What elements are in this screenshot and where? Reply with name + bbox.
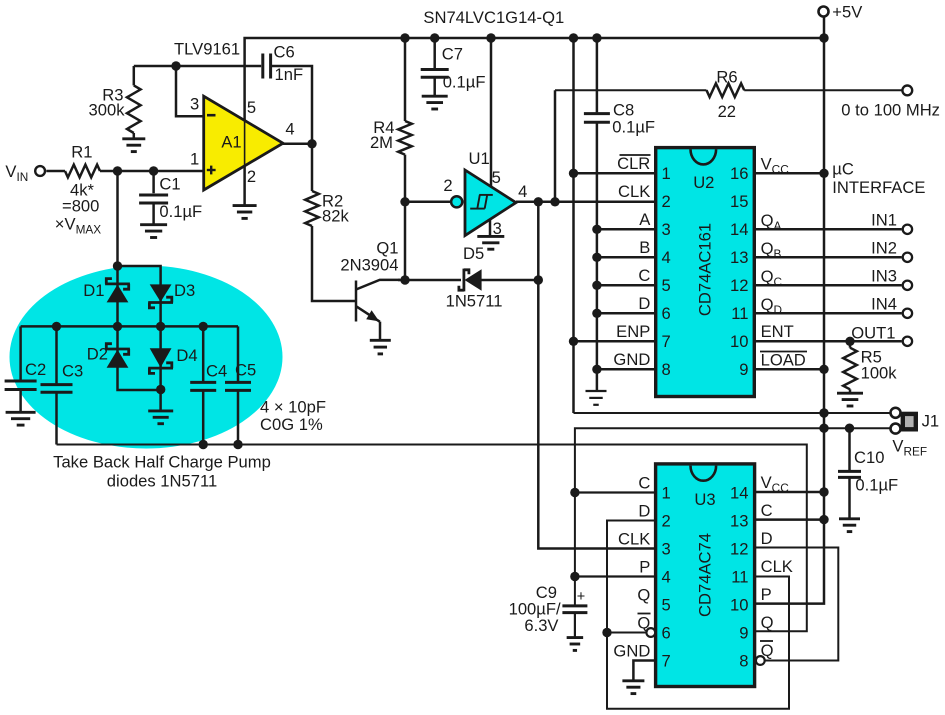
svg-text:C0G 1%: C0G 1% — [260, 415, 323, 434]
svg-text:5: 5 — [492, 168, 501, 187]
svg-text:1: 1 — [662, 483, 671, 502]
svg-text:A1: A1 — [221, 133, 241, 151]
svg-text:+5V: +5V — [832, 3, 862, 22]
svg-text:Take Back Half Charge Pump: Take Back Half Charge Pump — [53, 453, 271, 472]
svg-text:9: 9 — [739, 623, 748, 642]
svg-text:IN2: IN2 — [871, 239, 897, 258]
svg-text:0.1µF: 0.1µF — [443, 73, 486, 92]
svg-text:CLK: CLK — [618, 530, 650, 549]
svg-text:D: D — [761, 529, 773, 548]
svg-text:0.1µF: 0.1µF — [159, 202, 202, 221]
svg-text:82k: 82k — [322, 207, 349, 226]
svg-text:CD74AC74: CD74AC74 — [696, 533, 715, 617]
svg-text:5: 5 — [662, 595, 671, 614]
svg-text:4: 4 — [518, 182, 527, 201]
svg-text:4: 4 — [662, 248, 671, 267]
svg-text:Q: Q — [761, 641, 774, 660]
svg-text:0.1µF: 0.1µF — [612, 118, 655, 137]
svg-text:11: 11 — [731, 304, 748, 323]
svg-text:D3: D3 — [174, 281, 195, 300]
svg-text:6: 6 — [662, 623, 671, 642]
svg-text:7: 7 — [662, 651, 671, 670]
svg-text:GND: GND — [613, 642, 650, 661]
svg-text:5: 5 — [662, 276, 671, 295]
svg-text:D5: D5 — [463, 244, 484, 263]
svg-text:LOAD: LOAD — [761, 351, 806, 370]
svg-text:ENP: ENP — [616, 322, 650, 341]
svg-text:2: 2 — [443, 176, 452, 195]
svg-text:2M: 2M — [370, 133, 393, 152]
svg-text:300k: 300k — [89, 101, 126, 120]
svg-text:U2: U2 — [693, 173, 714, 192]
svg-text:IN4: IN4 — [871, 295, 897, 314]
svg-text:12: 12 — [730, 276, 748, 295]
svg-text:CLK: CLK — [761, 557, 793, 576]
svg-text:14: 14 — [730, 220, 748, 239]
svg-text:6: 6 — [662, 304, 671, 323]
svg-text:IN3: IN3 — [871, 267, 897, 286]
svg-text:TLV9161: TLV9161 — [174, 40, 240, 59]
svg-text:3: 3 — [662, 539, 671, 558]
svg-text:2: 2 — [247, 167, 256, 186]
svg-text:IN1: IN1 — [871, 211, 897, 230]
svg-text:10: 10 — [730, 332, 748, 351]
svg-text:2: 2 — [662, 192, 671, 211]
svg-text:4: 4 — [662, 567, 671, 586]
svg-text:C: C — [761, 501, 773, 520]
svg-text:C3: C3 — [62, 362, 83, 381]
svg-text:B: B — [639, 238, 650, 257]
svg-text:CD74AC161: CD74AC161 — [696, 223, 715, 316]
svg-text:16: 16 — [730, 164, 748, 183]
svg-text:C5: C5 — [235, 361, 256, 380]
svg-text:C6: C6 — [274, 43, 295, 62]
svg-text:C4: C4 — [206, 362, 227, 381]
svg-text:D1: D1 — [83, 281, 104, 300]
svg-text:µC: µC — [832, 160, 854, 179]
svg-text:12: 12 — [730, 539, 748, 558]
svg-text:10: 10 — [730, 595, 748, 614]
svg-text:CLR: CLR — [617, 154, 650, 173]
svg-text:Q: Q — [761, 613, 774, 632]
svg-text:P: P — [639, 558, 650, 577]
svg-text:diodes 1N5711: diodes 1N5711 — [107, 472, 217, 491]
svg-text:ENT: ENT — [761, 322, 794, 341]
svg-text:Q: Q — [637, 614, 650, 633]
svg-text:14: 14 — [730, 483, 748, 502]
svg-text:D4: D4 — [176, 346, 197, 365]
svg-text:INTERFACE: INTERFACE — [832, 178, 925, 197]
svg-text:A: A — [639, 210, 651, 229]
svg-text:8: 8 — [739, 651, 748, 670]
svg-text:7: 7 — [662, 332, 671, 351]
svg-text:C10: C10 — [854, 448, 884, 467]
svg-text:3: 3 — [190, 95, 199, 114]
svg-text:9: 9 — [739, 360, 748, 379]
svg-text:5: 5 — [247, 98, 256, 117]
svg-text:+: + — [577, 589, 585, 605]
svg-text:OUT1: OUT1 — [851, 324, 895, 343]
svg-text:C2: C2 — [25, 360, 46, 379]
svg-text:1: 1 — [662, 164, 671, 183]
svg-text:C: C — [638, 266, 650, 285]
svg-text:R1: R1 — [71, 143, 92, 162]
svg-text:U3: U3 — [694, 490, 715, 509]
svg-text:0.1µF: 0.1µF — [855, 476, 898, 495]
svg-text:1N5711: 1N5711 — [446, 292, 503, 311]
svg-text:3: 3 — [493, 219, 502, 238]
svg-text:11: 11 — [731, 567, 748, 586]
svg-text:CLK: CLK — [618, 182, 650, 201]
svg-text:U1: U1 — [469, 149, 490, 168]
svg-text:2N3904: 2N3904 — [340, 256, 398, 275]
svg-text:D: D — [638, 502, 650, 521]
svg-text:1: 1 — [190, 150, 199, 169]
svg-text:13: 13 — [730, 511, 748, 530]
svg-text:1nF: 1nF — [275, 65, 304, 84]
svg-text:=800: =800 — [62, 197, 99, 216]
svg-text:D: D — [638, 294, 650, 313]
svg-text:6.3V: 6.3V — [524, 616, 558, 635]
svg-text:3: 3 — [662, 220, 671, 239]
svg-text:P: P — [761, 585, 772, 604]
svg-text:R6: R6 — [716, 68, 737, 87]
svg-text:8: 8 — [662, 360, 671, 379]
svg-text:SN74LVC1G14-Q1: SN74LVC1G14-Q1 — [423, 8, 564, 27]
svg-text:13: 13 — [730, 248, 748, 267]
svg-text:C7: C7 — [442, 45, 463, 64]
svg-text:4: 4 — [285, 120, 294, 139]
svg-text:C: C — [638, 474, 650, 493]
svg-text:J1: J1 — [922, 412, 940, 431]
svg-text:22: 22 — [718, 102, 736, 121]
svg-text:Q: Q — [637, 586, 650, 605]
svg-text:D2: D2 — [87, 345, 108, 364]
svg-text:15: 15 — [730, 192, 748, 211]
svg-text:2: 2 — [662, 511, 671, 530]
svg-text:C1: C1 — [159, 175, 180, 194]
svg-text:100k: 100k — [861, 364, 898, 383]
svg-text:GND: GND — [613, 350, 650, 369]
svg-text:0 to 100 MHz: 0 to 100 MHz — [841, 101, 940, 120]
svg-text:4 × 10pF: 4 × 10pF — [260, 398, 326, 417]
